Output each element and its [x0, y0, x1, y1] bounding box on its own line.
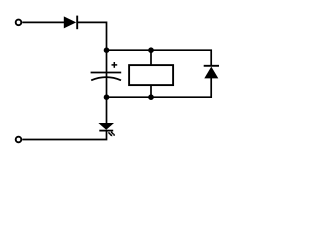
LED D3 [98, 97, 114, 130]
terminal J1 (top-left input) [16, 20, 22, 26]
wire (top rail) [107, 50, 212, 66]
node C junction [104, 94, 110, 100]
capacitor C1 (polarized) [91, 50, 122, 97]
node B junction [148, 47, 154, 53]
wire [22, 131, 106, 140]
node D junction [148, 94, 154, 100]
wire [77, 22, 106, 50]
plus polarity label [112, 62, 118, 68]
diode D2 (flyback) [204, 66, 219, 79]
wire [22, 21, 64, 23]
diode D1 [64, 16, 77, 30]
wire (bottom rail) [107, 78, 212, 97]
terminal J2 (bottom-left input) [16, 137, 22, 143]
LED emission arrows [108, 132, 115, 137]
node A junction [104, 47, 110, 53]
relay coil K1 [129, 50, 173, 97]
